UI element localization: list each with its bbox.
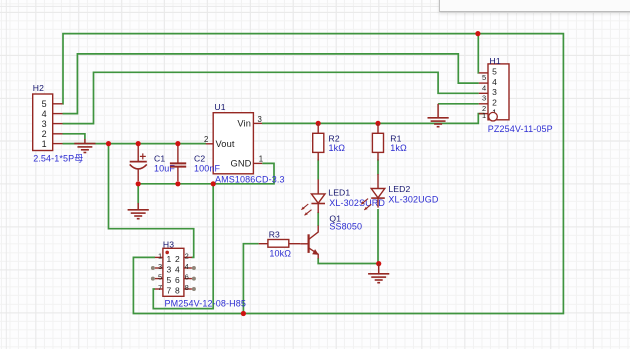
svg-text:5: 5: [492, 67, 497, 77]
svg-text:Vin: Vin: [237, 118, 251, 128]
svg-text:3: 3: [158, 262, 162, 271]
svg-text:4: 4: [185, 262, 189, 271]
svg-text:3: 3: [492, 87, 497, 97]
regulator U1: [204, 113, 263, 174]
wire R1 to LED2: [377, 160, 379, 175]
wire GND rail drop to H3 pin7: [153, 184, 213, 309]
svg-text:LED1: LED1: [328, 187, 350, 197]
wire drop from top-rail junction to H1 pin5: [477, 34, 480, 73]
wire R2 to LED1: [317, 160, 319, 180]
svg-text:1: 1: [42, 139, 47, 149]
wire H2 pin2 to ground: [63, 134, 85, 140]
svg-text:1: 1: [482, 111, 486, 120]
LED LED1: [301, 179, 325, 215]
svg-text:GND: GND: [230, 159, 251, 169]
wire LED2 cathode to ground rail: [377, 209, 379, 264]
ground (C1/C2 rail): [128, 203, 149, 219]
svg-text:7: 7: [158, 283, 162, 292]
svg-text:2: 2: [492, 98, 497, 108]
junction: [175, 181, 180, 186]
svg-text:H1: H1: [490, 56, 501, 66]
resistor R2: [313, 123, 324, 160]
svg-text:Vout: Vout: [216, 139, 235, 149]
junction: [106, 141, 111, 146]
wire net C: H2 pin3 to H1 pin3: [63, 72, 479, 123]
wire net B: H2 pin4 to H1 pin4: [63, 54, 479, 114]
svg-text:R1: R1: [390, 133, 401, 143]
svg-text:2: 2: [42, 129, 47, 139]
capacitor C1 (polarized): [130, 146, 147, 181]
svg-text:4: 4: [42, 109, 47, 119]
svg-text:XL-302SURD: XL-302SURD: [329, 198, 385, 208]
junction: [136, 141, 141, 146]
svg-text:1: 1: [166, 254, 171, 264]
svg-text:2.54-1*5P母: 2.54-1*5P母: [33, 153, 83, 163]
wire 3.3V rail H2 pin1 to U1 Vout: [63, 143, 207, 145]
svg-text:4: 4: [482, 83, 486, 92]
svg-text:H3: H3: [163, 239, 174, 249]
junction: [241, 311, 246, 316]
svg-text:100nF: 100nF: [194, 163, 221, 173]
connector H3: [151, 248, 196, 296]
svg-text:1: 1: [158, 251, 162, 260]
svg-text:3: 3: [482, 94, 486, 103]
wire Q1 emitter to ground rail: [318, 258, 379, 264]
svg-text:PM254V-12-08-H85: PM254V-12-08-H85: [165, 298, 246, 308]
ground (H2 pin2): [74, 139, 95, 153]
LED LED2: [361, 174, 385, 210]
UI panel top right: [439, 0, 630, 12]
junction: [175, 141, 180, 146]
resistor R1: [372, 123, 383, 160]
junction: [316, 121, 321, 126]
svg-text:4: 4: [175, 265, 180, 275]
junction: [375, 121, 380, 126]
junction: [136, 181, 141, 186]
svg-text:1kΩ: 1kΩ: [390, 143, 407, 153]
svg-text:3: 3: [258, 115, 262, 124]
svg-text:5: 5: [158, 273, 162, 282]
ground (Q1 emitter): [368, 264, 389, 283]
svg-text:1kΩ: 1kΩ: [329, 143, 346, 153]
wire C1 ground stem: [137, 184, 139, 204]
resistor R3: [259, 240, 301, 248]
svg-text:10kΩ: 10kΩ: [269, 248, 291, 258]
wire 3.3V rail branch to H3 pin2: [109, 144, 194, 258]
svg-text:2: 2: [204, 135, 208, 144]
wire H1 pin2 to ground: [438, 103, 479, 105]
svg-text:2: 2: [175, 254, 180, 264]
wire LED1 cathode to Q1 collector: [317, 212, 319, 226]
svg-text:C2: C2: [194, 153, 205, 163]
svg-text:4: 4: [492, 77, 497, 87]
svg-text:6: 6: [185, 273, 189, 282]
svg-text:U1: U1: [214, 102, 225, 112]
svg-text:8: 8: [175, 286, 180, 296]
svg-text:R3: R3: [269, 229, 280, 239]
svg-text:10uF: 10uF: [154, 163, 175, 173]
junction: [376, 261, 381, 266]
capacitor C2: [170, 146, 186, 181]
connector H2: [33, 94, 63, 151]
svg-text:5: 5: [482, 73, 486, 82]
junction: [475, 31, 480, 36]
svg-text:R2: R2: [329, 133, 340, 143]
svg-text:PZ254V-11-05P: PZ254V-11-05P: [488, 124, 553, 134]
transistor Q1: [300, 226, 318, 259]
svg-text:5: 5: [166, 275, 171, 285]
svg-text:7: 7: [166, 286, 171, 296]
svg-text:2: 2: [185, 251, 189, 260]
svg-text:3: 3: [166, 265, 171, 275]
junction: [211, 181, 216, 186]
svg-text:8: 8: [185, 283, 189, 292]
svg-text:5: 5: [42, 99, 47, 109]
wire net A: H2 pin5 - top rail - right riser - bottom rail - H3 pin1: [63, 34, 564, 314]
svg-text:AMS1086CD-3.3: AMS1086CD-3.3: [215, 174, 285, 184]
wire Vin rail U1 pin3 to H1 pin1: [262, 114, 484, 124]
svg-text:C1: C1: [154, 153, 165, 163]
svg-text:H2: H2: [33, 83, 44, 93]
wire GND rail under C1 C2 to U1 GND pin: [138, 163, 274, 183]
svg-text:1: 1: [259, 154, 263, 163]
wire bottom rail branch to R3: [243, 244, 258, 314]
svg-text:SS8050: SS8050: [329, 222, 362, 232]
connector H1: [479, 64, 509, 121]
svg-text:6: 6: [175, 275, 180, 285]
svg-text:XL-302UGD: XL-302UGD: [388, 194, 438, 204]
svg-text:3: 3: [42, 119, 47, 129]
svg-text:LED2: LED2: [388, 184, 410, 194]
ground (H1 pin2): [428, 104, 449, 127]
